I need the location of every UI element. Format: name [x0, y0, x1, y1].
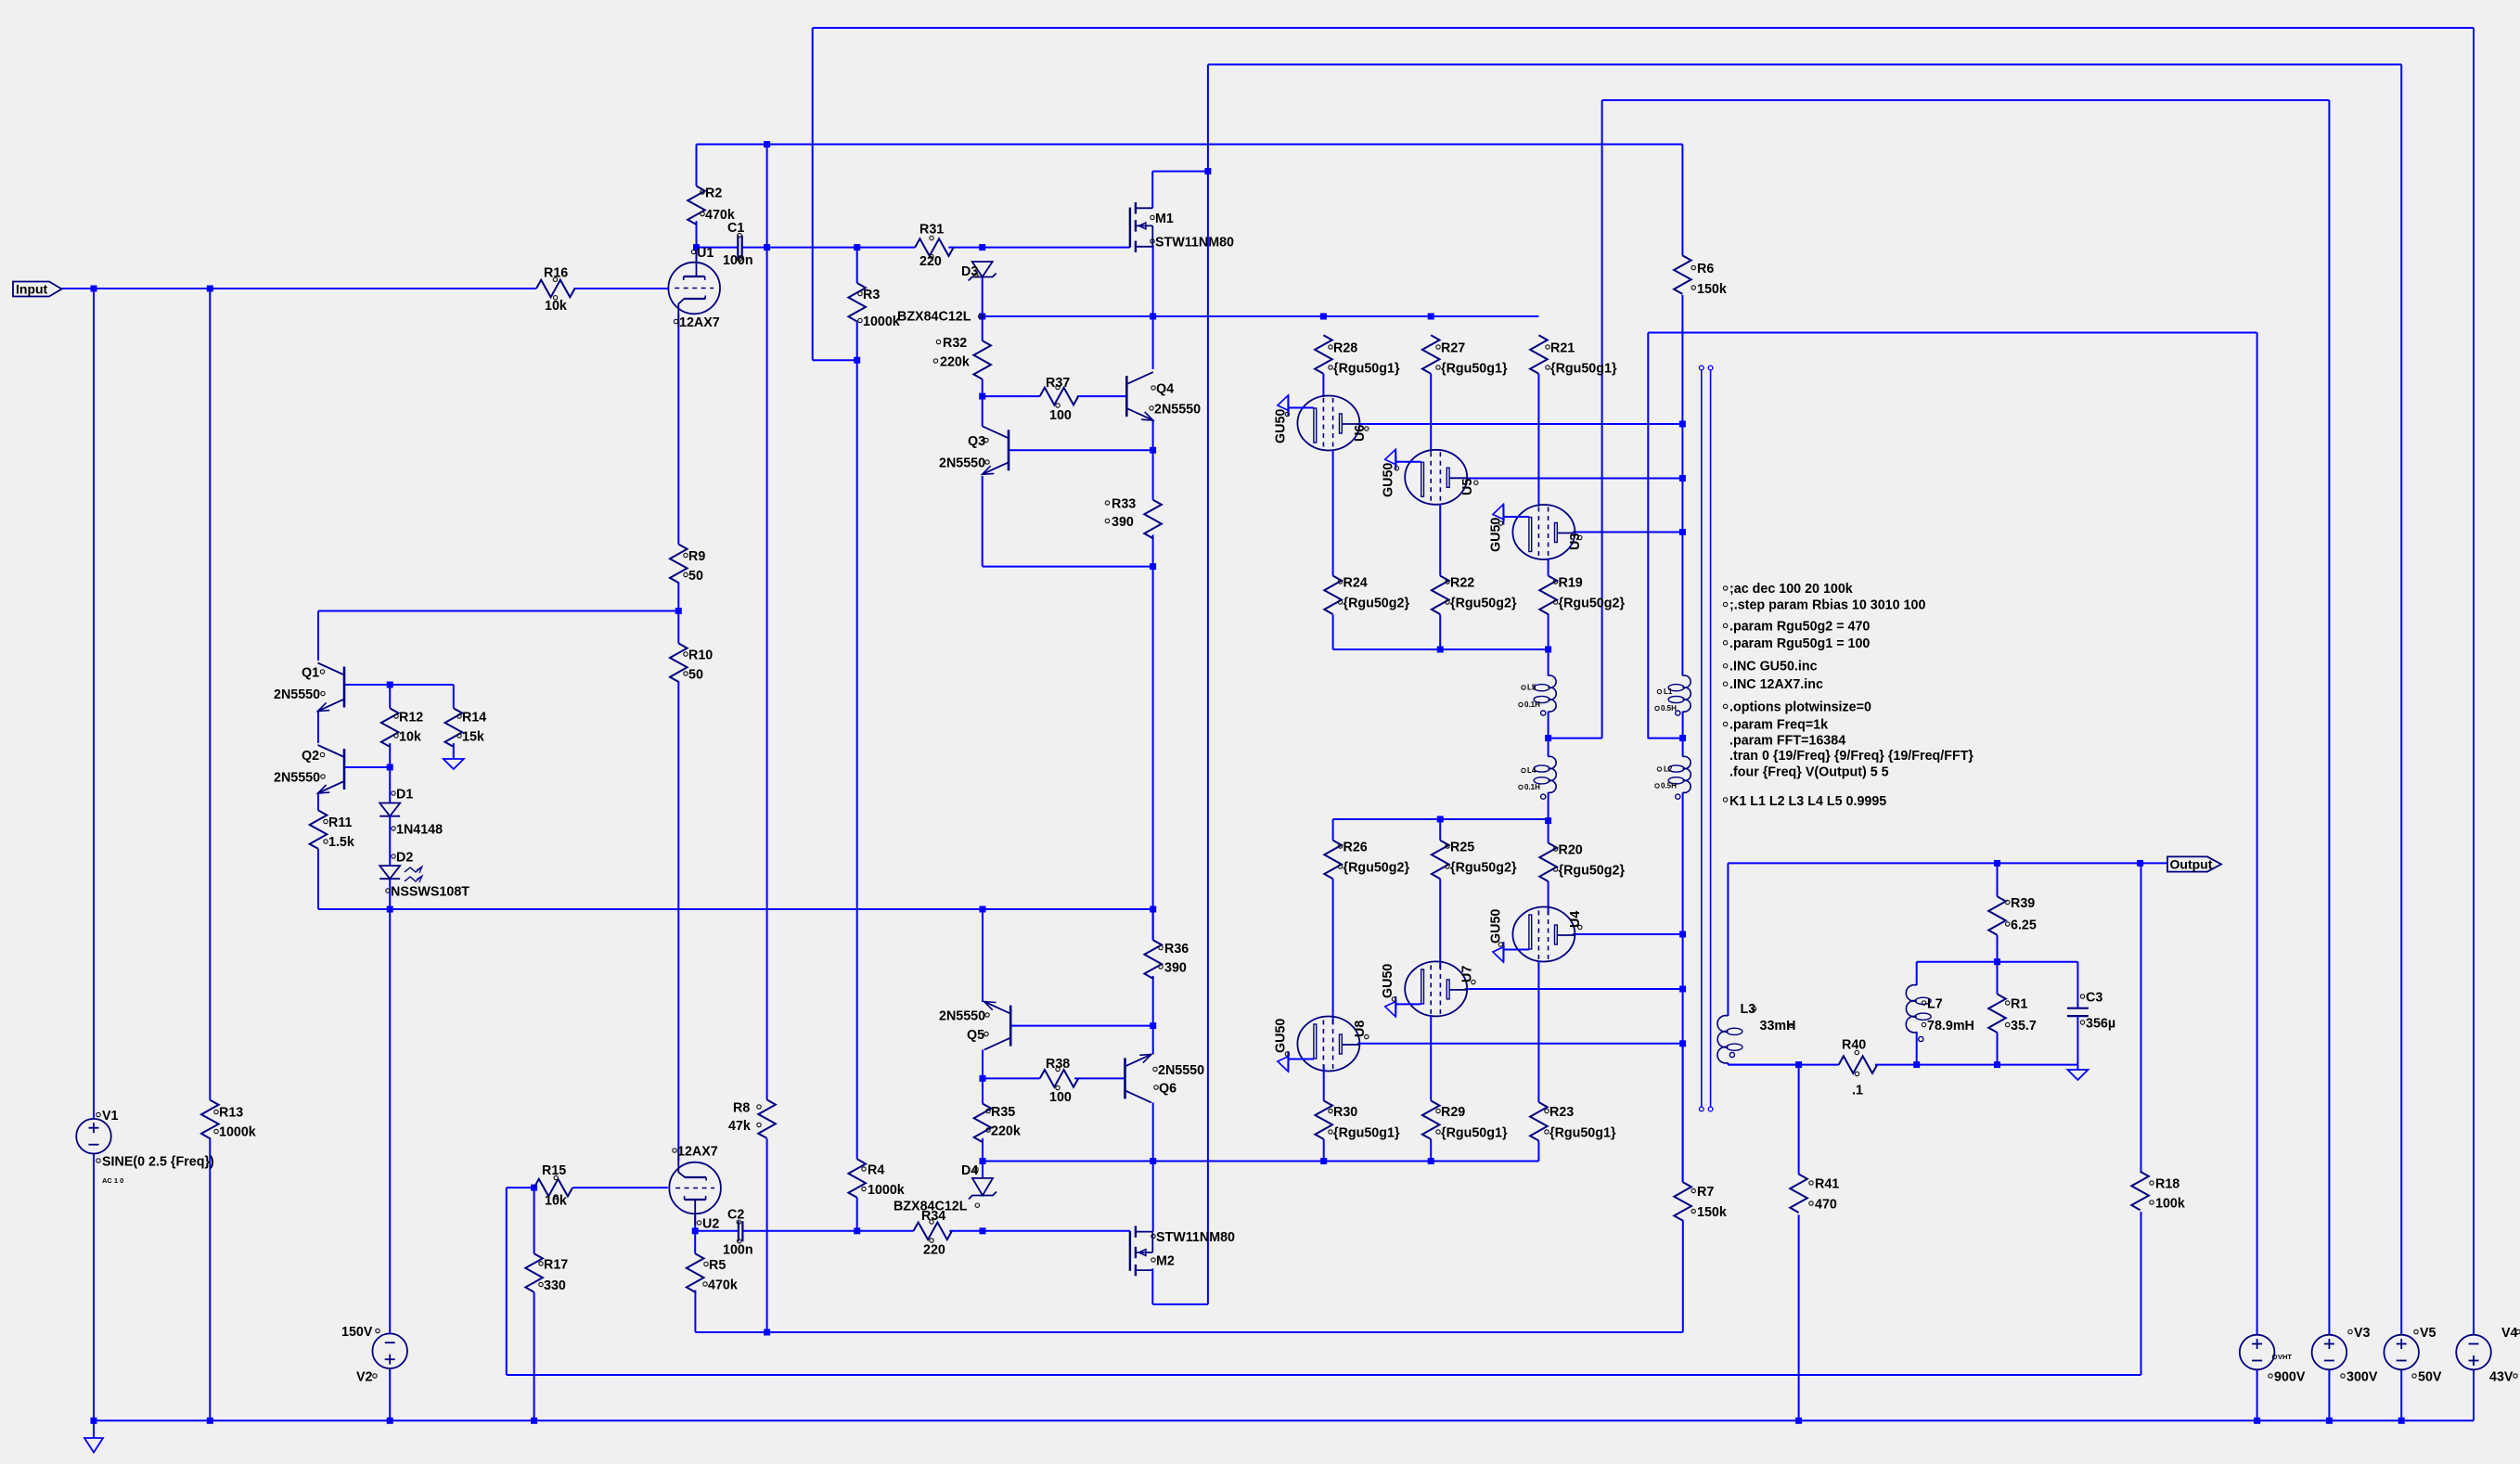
- svg-text:0.5H: 0.5H: [1661, 704, 1677, 713]
- svg-text:{Rgu50g1}: {Rgu50g1}: [1333, 362, 1400, 377]
- ground flag at rail: [84, 1420, 103, 1452]
- wire C2 gate drive lower: [695, 1215, 1130, 1253]
- svg-text:R31: R31: [919, 223, 944, 238]
- resistor R18: [2131, 1172, 2185, 1212]
- wire R8 column upper: [766, 145, 768, 1100]
- resistor R5: [687, 1253, 738, 1292]
- resistor R14: [445, 708, 487, 747]
- junction U4 plate: [1679, 931, 1686, 938]
- svg-text:.1: .1: [1852, 1084, 1863, 1098]
- junction R28 top: [1320, 314, 1327, 320]
- svg-text:470k: 470k: [708, 1278, 738, 1293]
- svg-text:220k: 220k: [940, 355, 970, 370]
- svg-text:R4: R4: [868, 1163, 884, 1178]
- wire Q5 collector node: [983, 1050, 1125, 1104]
- svg-text:Output: Output: [2170, 857, 2213, 872]
- svg-text:10k: 10k: [545, 1194, 567, 1209]
- svg-text:BZX84C12L: BZX84C12L: [897, 310, 971, 325]
- svg-text:0.5H: 0.5H: [1661, 782, 1677, 790]
- svg-text:220: 220: [919, 254, 942, 269]
- svg-text:.INC 12AX7.inc: .INC 12AX7.inc: [1729, 677, 1823, 692]
- svg-text:D2: D2: [396, 851, 413, 866]
- wire bias row (D2 cathode net): [318, 849, 1153, 1334]
- wire R28 to U6 g1: [1322, 374, 1324, 397]
- svg-text:GU50: GU50: [1489, 518, 1504, 552]
- voltage source V5 50V: [2384, 1326, 2442, 1385]
- capacitor C3: [2067, 991, 2115, 1032]
- svg-text:VHT: VHT: [2278, 1353, 2292, 1361]
- svg-text:390: 390: [1164, 961, 1187, 976]
- junction R2/C1/U1 plate: [693, 244, 700, 250]
- junction R15/R17: [531, 1185, 537, 1191]
- resistor R15: [534, 1163, 573, 1209]
- resistor R27: [1422, 335, 1508, 376]
- svg-text:2N5550: 2N5550: [1154, 403, 1201, 417]
- junction Q6c/M2s/bus: [1150, 1158, 1156, 1164]
- port flag Input: [13, 282, 62, 297]
- inductor L7 78.9mH: [1906, 985, 1974, 1042]
- svg-text:BZX84C12L: BZX84C12L: [894, 1200, 968, 1214]
- wire L3 bottom: [1728, 1064, 1798, 1066]
- resistor R8: [728, 1099, 776, 1138]
- svg-text:R40: R40: [1842, 1038, 1866, 1053]
- svg-text:100k: 100k: [2155, 1197, 2185, 1212]
- wire B+ row (R2 top to R6 top): [697, 145, 1683, 256]
- svg-text:900V: 900V: [2274, 1370, 2306, 1385]
- svg-text:R23: R23: [1549, 1105, 1574, 1120]
- junction R4 bottom: [854, 1227, 860, 1234]
- svg-text:150k: 150k: [1697, 282, 1727, 297]
- svg-text:50V: 50V: [2418, 1370, 2442, 1385]
- svg-text:Q5: Q5: [967, 1028, 984, 1043]
- svg-text:GU50: GU50: [1381, 964, 1395, 998]
- voltage source V1 SINE: [76, 1109, 214, 1185]
- junction R35/D4/bus: [980, 1158, 986, 1164]
- svg-text:47k: 47k: [728, 1119, 751, 1134]
- triode U1 12AX7: [668, 246, 720, 330]
- svg-text:L4: L4: [1527, 766, 1536, 775]
- resistor R10: [670, 643, 713, 682]
- pentode U5 GU50: [1382, 449, 1479, 505]
- svg-text:C2: C2: [727, 1208, 744, 1223]
- resistor R12: [381, 708, 423, 747]
- svg-text:.param FFT=16384: .param FFT=16384: [1729, 734, 1845, 749]
- junction rail R13: [207, 1418, 213, 1424]
- wire U7 plate: [1465, 988, 1683, 990]
- svg-text:L5: L5: [1527, 684, 1536, 692]
- svg-text:GU50: GU50: [1382, 463, 1396, 497]
- svg-text:V2: V2: [356, 1370, 373, 1385]
- junction R19/L5: [1545, 647, 1551, 653]
- svg-text:R21: R21: [1550, 341, 1575, 356]
- svg-text:R39: R39: [2011, 896, 2035, 911]
- svg-text:.INC GU50.inc: .INC GU50.inc: [1729, 660, 1818, 674]
- resistor R28: [1315, 335, 1400, 376]
- svg-text:R14: R14: [462, 711, 486, 726]
- svg-text:R11: R11: [328, 815, 352, 830]
- inductor L5 0.1H: [1519, 675, 1556, 715]
- wire plate node column: [1681, 295, 1683, 1182]
- svg-text:100: 100: [1049, 408, 1072, 423]
- resistor R40: [1839, 1038, 1878, 1098]
- ground below C3: [2067, 1065, 2088, 1080]
- resistor R11: [310, 810, 354, 850]
- svg-text:12AX7: 12AX7: [677, 1145, 718, 1160]
- svg-text:R19: R19: [1559, 576, 1583, 591]
- zener D3 BZX84C12L: [897, 262, 996, 325]
- svg-text:78.9mH: 78.9mH: [1927, 1019, 1974, 1034]
- resistor R35: [974, 1104, 1021, 1143]
- junction input/R13: [207, 286, 213, 292]
- svg-text:0.1H: 0.1H: [1524, 783, 1540, 791]
- wire R7 top column: [1682, 1044, 1684, 1182]
- svg-text:330: 330: [544, 1278, 566, 1293]
- svg-text:12AX7: 12AX7: [679, 315, 720, 330]
- wire Q2 base node: [344, 743, 390, 803]
- inductor L3 33mH: [1717, 1002, 1795, 1063]
- svg-text:1N4148: 1N4148: [396, 823, 443, 838]
- svg-text:R30: R30: [1333, 1105, 1357, 1120]
- resistor R24: [1324, 576, 1409, 615]
- svg-text:STW11NM80: STW11NM80: [1155, 236, 1234, 250]
- svg-text:2N5550: 2N5550: [274, 771, 320, 786]
- wire Q1 emitter to Q2 collector: [317, 711, 319, 743]
- junction R8 bottom: [764, 1329, 770, 1336]
- junction L5/L4 tap: [1545, 735, 1551, 741]
- junction R8 top column: [764, 244, 770, 250]
- wire Q4 base node: [983, 379, 1127, 427]
- junction R25 top: [1437, 816, 1444, 823]
- svg-text:35.7: 35.7: [2011, 1019, 2037, 1034]
- svg-text:220: 220: [923, 1243, 945, 1258]
- wire zobel mid row: [1917, 935, 2078, 1008]
- svg-text:NSSWS108T: NSSWS108T: [391, 885, 469, 900]
- wire U8 plate: [1357, 1043, 1683, 1045]
- pentode U4 GU50: [1489, 907, 1584, 963]
- svg-text:2N5550: 2N5550: [939, 1009, 985, 1024]
- junction rail R41: [1795, 1418, 1802, 1424]
- wire UL tap row: [1549, 712, 1602, 757]
- resistor R19: [1539, 576, 1625, 615]
- junction R1 bottom: [1994, 1061, 2000, 1068]
- ground below R14: [444, 743, 464, 769]
- voltage source V3 300V: [2312, 1326, 2378, 1385]
- svg-text:R20: R20: [1559, 843, 1583, 858]
- svg-text:{Rgu50g2}: {Rgu50g2}: [1450, 861, 1517, 876]
- svg-text:{Rgu50g2}: {Rgu50g2}: [1450, 597, 1517, 611]
- svg-text:.param Rgu50g1 = 100: .param Rgu50g1 = 100: [1729, 636, 1870, 651]
- wire top rail 1 (M1 drain net): [813, 28, 2474, 1335]
- capacitor C2: [723, 1208, 753, 1258]
- npn Q3 2N5550: [939, 426, 1009, 474]
- wire R27 to U5 g1: [1430, 374, 1432, 452]
- junction R39 top: [1994, 860, 2000, 867]
- wire U8 g1 to R30: [1323, 1065, 1325, 1101]
- triode U2 12AX7: [669, 1145, 721, 1232]
- wire M2 drain: [1152, 1268, 1208, 1304]
- svg-text:{Rgu50g2}: {Rgu50g2}: [1559, 597, 1626, 611]
- resistor R36: [1144, 940, 1189, 978]
- svg-text:R15: R15: [542, 1163, 566, 1178]
- resistor R25: [1432, 841, 1517, 880]
- junction L1/L2 CT: [1679, 735, 1686, 741]
- wire M1 drain: [1152, 172, 1208, 209]
- svg-text:0.1H: 0.1H: [1524, 700, 1540, 709]
- svg-text:R38: R38: [1046, 1057, 1070, 1072]
- junction Q4 collector/bus: [1150, 314, 1156, 320]
- svg-text:Q3: Q3: [968, 434, 985, 449]
- wire U6 plate: [1357, 423, 1683, 425]
- svg-text:R36: R36: [1164, 942, 1189, 957]
- wire Q3 emitter to R33 bottom: [983, 476, 1153, 940]
- svg-text:R16: R16: [544, 266, 568, 281]
- wire output row: [1728, 863, 2167, 1016]
- svg-text:470: 470: [1815, 1198, 1837, 1213]
- svg-text:L1: L1: [1664, 687, 1673, 696]
- svg-text:Q2: Q2: [302, 749, 319, 764]
- svg-text:{Rgu50g1}: {Rgu50g1}: [1550, 362, 1617, 377]
- wire Q2 emitter to R11: [317, 793, 319, 810]
- svg-text:300V: 300V: [2346, 1370, 2378, 1385]
- wire Q1 collector row: [318, 315, 678, 1162]
- wire R21 to U3 g1: [1537, 374, 1539, 507]
- resistor R29: [1422, 1100, 1508, 1140]
- svg-text:390: 390: [1112, 515, 1134, 530]
- svg-text:L7: L7: [1927, 997, 1943, 1012]
- svg-text:R25: R25: [1450, 841, 1474, 855]
- resistor R21: [1530, 335, 1617, 376]
- junction U6 plate: [1679, 421, 1686, 428]
- svg-text:Input: Input: [16, 282, 48, 297]
- junction R3 top: [854, 244, 860, 250]
- svg-text:356µ: 356µ: [2086, 1017, 2115, 1032]
- svg-text:R27: R27: [1441, 341, 1465, 356]
- svg-text:;.step param Rbias 10 3010 100: ;.step param Rbias 10 3010 100: [1729, 598, 1925, 613]
- svg-text:;ac dec 100 20 100k: ;ac dec 100 20 100k: [1729, 582, 1853, 597]
- svg-text:V5: V5: [2420, 1326, 2436, 1341]
- resistor R1: [1988, 994, 2037, 1034]
- wire U5 plate: [1465, 478, 1683, 480]
- svg-text:6.25: 6.25: [2011, 918, 2037, 933]
- wire screen bus upper: [1333, 613, 1549, 649]
- spice directives text block: [1723, 582, 1974, 780]
- resistor R9: [670, 545, 705, 584]
- junction L4/R20/screen bus lower: [1545, 817, 1551, 824]
- svg-text:150k: 150k: [1697, 1205, 1727, 1220]
- junction R30 bottom: [1320, 1158, 1327, 1164]
- junction R39 bottom: [1994, 958, 2000, 965]
- svg-text:43V: 43V: [2489, 1370, 2514, 1385]
- junction D3/R32: [979, 314, 985, 320]
- svg-text:STW11NM80: STW11NM80: [1156, 1230, 1235, 1245]
- zener D4 BZX84C12L: [894, 1163, 996, 1214]
- junction R9/R10: [675, 608, 682, 614]
- wire R15 grid node: [507, 1188, 668, 1375]
- svg-text:R8: R8: [733, 1101, 750, 1116]
- resistor R31: [915, 223, 953, 270]
- svg-text:C1: C1: [727, 221, 744, 236]
- svg-text:50: 50: [688, 668, 703, 683]
- svg-text:R3: R3: [863, 288, 880, 302]
- junction U5 plate: [1679, 475, 1686, 482]
- junction R35/R38/Q5c: [980, 1075, 986, 1082]
- inductor L1 0.5H: [1655, 675, 1691, 715]
- svg-text:AC 1 0: AC 1 0: [102, 1176, 123, 1185]
- svg-text:M2: M2: [1156, 1254, 1175, 1269]
- svg-text:Q1: Q1: [302, 666, 319, 681]
- svg-text:Q4: Q4: [1156, 382, 1174, 397]
- resistor R32: [933, 336, 991, 379]
- svg-text:33mH: 33mH: [1760, 1019, 1796, 1034]
- junction Q2b/R12/D1: [387, 764, 393, 771]
- wire R20 to U4 g2: [1548, 881, 1549, 915]
- svg-text:U5: U5: [1460, 479, 1475, 495]
- wire L4 bottom node: [1548, 792, 1549, 842]
- junction R3 bottom node: [854, 357, 860, 364]
- wire Q6 base bar lead: [1010, 976, 1153, 1055]
- svg-text:1000k: 1000k: [868, 1183, 905, 1198]
- junction R22 bottom: [1437, 647, 1444, 653]
- svg-text:Q6: Q6: [1159, 1082, 1176, 1097]
- junction D2/V2: [387, 906, 393, 913]
- svg-text:R35: R35: [991, 1105, 1015, 1120]
- junction Q4e/Q3b/R33: [1150, 447, 1156, 454]
- svg-text:K1 L1 L2 L3 L4 L5 0.9995: K1 L1 L2 L3 L4 L5 0.9995: [1729, 794, 1886, 809]
- svg-text:15k: 15k: [462, 730, 484, 745]
- resistor R26: [1324, 841, 1409, 880]
- svg-text:2N5550: 2N5550: [274, 687, 320, 702]
- svg-text:L2: L2: [1664, 765, 1673, 774]
- wire Q4 emitter to Q3 base: [1009, 245, 1153, 500]
- junction R41 top: [1795, 1061, 1802, 1068]
- wire top rail 2 (M2 drain net): [1208, 65, 2401, 1335]
- resistor R16: [536, 266, 575, 315]
- svg-text:1000k: 1000k: [863, 315, 900, 329]
- svg-text:150V: 150V: [341, 1325, 373, 1340]
- diode D2 NSSWS108T: [379, 851, 469, 900]
- svg-text:SINE(0 2.5 {Freq}): SINE(0 2.5 {Freq}): [102, 1155, 214, 1170]
- inductor L4 0.1H: [1519, 756, 1556, 799]
- resistor R2: [688, 186, 735, 225]
- svg-text:GU50: GU50: [1274, 409, 1289, 443]
- svg-text:GU50: GU50: [1489, 909, 1504, 944]
- svg-text:R2: R2: [705, 186, 722, 201]
- junction R36 bottom/Q5 base/Q6 emitter: [1150, 1022, 1156, 1029]
- resistor R23: [1530, 1102, 1616, 1141]
- svg-text:V1: V1: [102, 1109, 119, 1124]
- svg-text:R1: R1: [2011, 997, 2027, 1012]
- npn Q2 2N5550: [274, 745, 344, 793]
- resistor R17: [525, 1253, 568, 1293]
- resistor R7: [1674, 1182, 1727, 1221]
- svg-text:{Rgu50g1}: {Rgu50g1}: [1333, 1126, 1400, 1141]
- wire primary CT row: [1648, 712, 1683, 757]
- svg-text:R17: R17: [544, 1258, 568, 1273]
- junction R36 top: [1150, 906, 1156, 913]
- junction U3 plate: [1679, 529, 1686, 535]
- svg-text:U2: U2: [702, 1217, 719, 1232]
- junction D4/R34: [980, 1227, 986, 1234]
- resistor R30: [1315, 1100, 1400, 1140]
- svg-text:{Rgu50g2}: {Rgu50g2}: [1344, 597, 1410, 611]
- junction L7 bottom: [1913, 1061, 1920, 1068]
- junction R27 top: [1428, 314, 1434, 320]
- svg-text:R5: R5: [709, 1258, 726, 1273]
- wire gate drive upper (C1 to M1 gate): [697, 221, 1130, 261]
- junction R33 bottom: [1150, 563, 1156, 570]
- spice K1 coupling directive: [1723, 794, 1886, 809]
- svg-text:{Rgu50g2}: {Rgu50g2}: [1559, 864, 1626, 879]
- pentode U6 GU50: [1274, 395, 1369, 451]
- svg-text:R6: R6: [1697, 262, 1714, 276]
- npn Q4 2N5550: [1126, 372, 1201, 420]
- resistor R37: [1040, 376, 1079, 423]
- svg-text:10k: 10k: [399, 730, 421, 745]
- svg-text:L3: L3: [1741, 1002, 1756, 1017]
- capacitor C1: [723, 221, 753, 268]
- svg-text:R29: R29: [1441, 1105, 1465, 1120]
- svg-text:V3: V3: [2354, 1326, 2371, 1341]
- wire U5 g2 to R22: [1439, 504, 1441, 576]
- svg-text:D4: D4: [961, 1163, 978, 1178]
- wire U3 g2 to R19: [1548, 559, 1549, 576]
- svg-text:{Rgu50g1}: {Rgu50g1}: [1549, 1126, 1616, 1141]
- svg-text:C3: C3: [2086, 991, 2102, 1006]
- svg-text:1.5k: 1.5k: [328, 835, 354, 850]
- resistor R22: [1432, 576, 1517, 615]
- svg-text:.options plotwinsize=0: .options plotwinsize=0: [1729, 700, 1871, 714]
- resistor R20: [1539, 843, 1625, 882]
- npn Q1 2N5550: [274, 663, 344, 712]
- svg-text:R24: R24: [1344, 576, 1368, 591]
- wire ground rail: [94, 1137, 2474, 1420]
- junction input/V1: [91, 286, 97, 292]
- junction U8 plate: [1679, 1040, 1686, 1047]
- svg-text:2N5550: 2N5550: [939, 456, 985, 471]
- junction R32/R37/Q3 collector: [979, 393, 985, 400]
- svg-text:R9: R9: [688, 549, 705, 564]
- svg-text:100n: 100n: [723, 1243, 753, 1258]
- junction R29 bottom: [1428, 1158, 1434, 1164]
- svg-text:1000k: 1000k: [219, 1125, 256, 1140]
- port flag Output: [2167, 856, 2221, 871]
- svg-text:D1: D1: [396, 788, 413, 803]
- junction U7 plate: [1679, 986, 1686, 993]
- svg-text:.param Rgu50g2 = 470: .param Rgu50g2 = 470: [1729, 619, 1870, 634]
- junction rail V5: [2398, 1418, 2405, 1424]
- junction rail 900V: [2254, 1418, 2260, 1424]
- svg-text:2N5550: 2N5550: [1158, 1063, 1204, 1078]
- junction rail R17: [531, 1418, 537, 1424]
- voltage source V2 150V: [341, 1325, 407, 1385]
- svg-text:.tran 0 {19/Freq} {9/Freq} {19: .tran 0 {19/Freq} {9/Freq} {19/Freq/FFT}: [1729, 749, 1974, 764]
- svg-text:R37: R37: [1046, 376, 1070, 391]
- junction U2 plate/C2/R5: [692, 1227, 699, 1234]
- wire screen bus lower: [1333, 819, 1549, 841]
- resistor R4: [848, 1159, 904, 1198]
- svg-text:50: 50: [688, 569, 703, 584]
- wire R4 bottom lead: [856, 1198, 858, 1231]
- svg-text:220k: 220k: [991, 1124, 1021, 1139]
- svg-text:R12: R12: [399, 711, 423, 726]
- svg-text:M1: M1: [1155, 212, 1174, 226]
- junction Q5 emitter: [980, 906, 986, 913]
- diode D1 1N4148: [379, 788, 443, 838]
- voltage source V4 43V: [2456, 1326, 2520, 1385]
- wire L5 top lead: [1548, 649, 1549, 675]
- svg-text:R13: R13: [219, 1106, 243, 1121]
- svg-text:.four {Freq} V(Output) 5 5: .four {Freq} V(Output) 5 5: [1729, 765, 1889, 780]
